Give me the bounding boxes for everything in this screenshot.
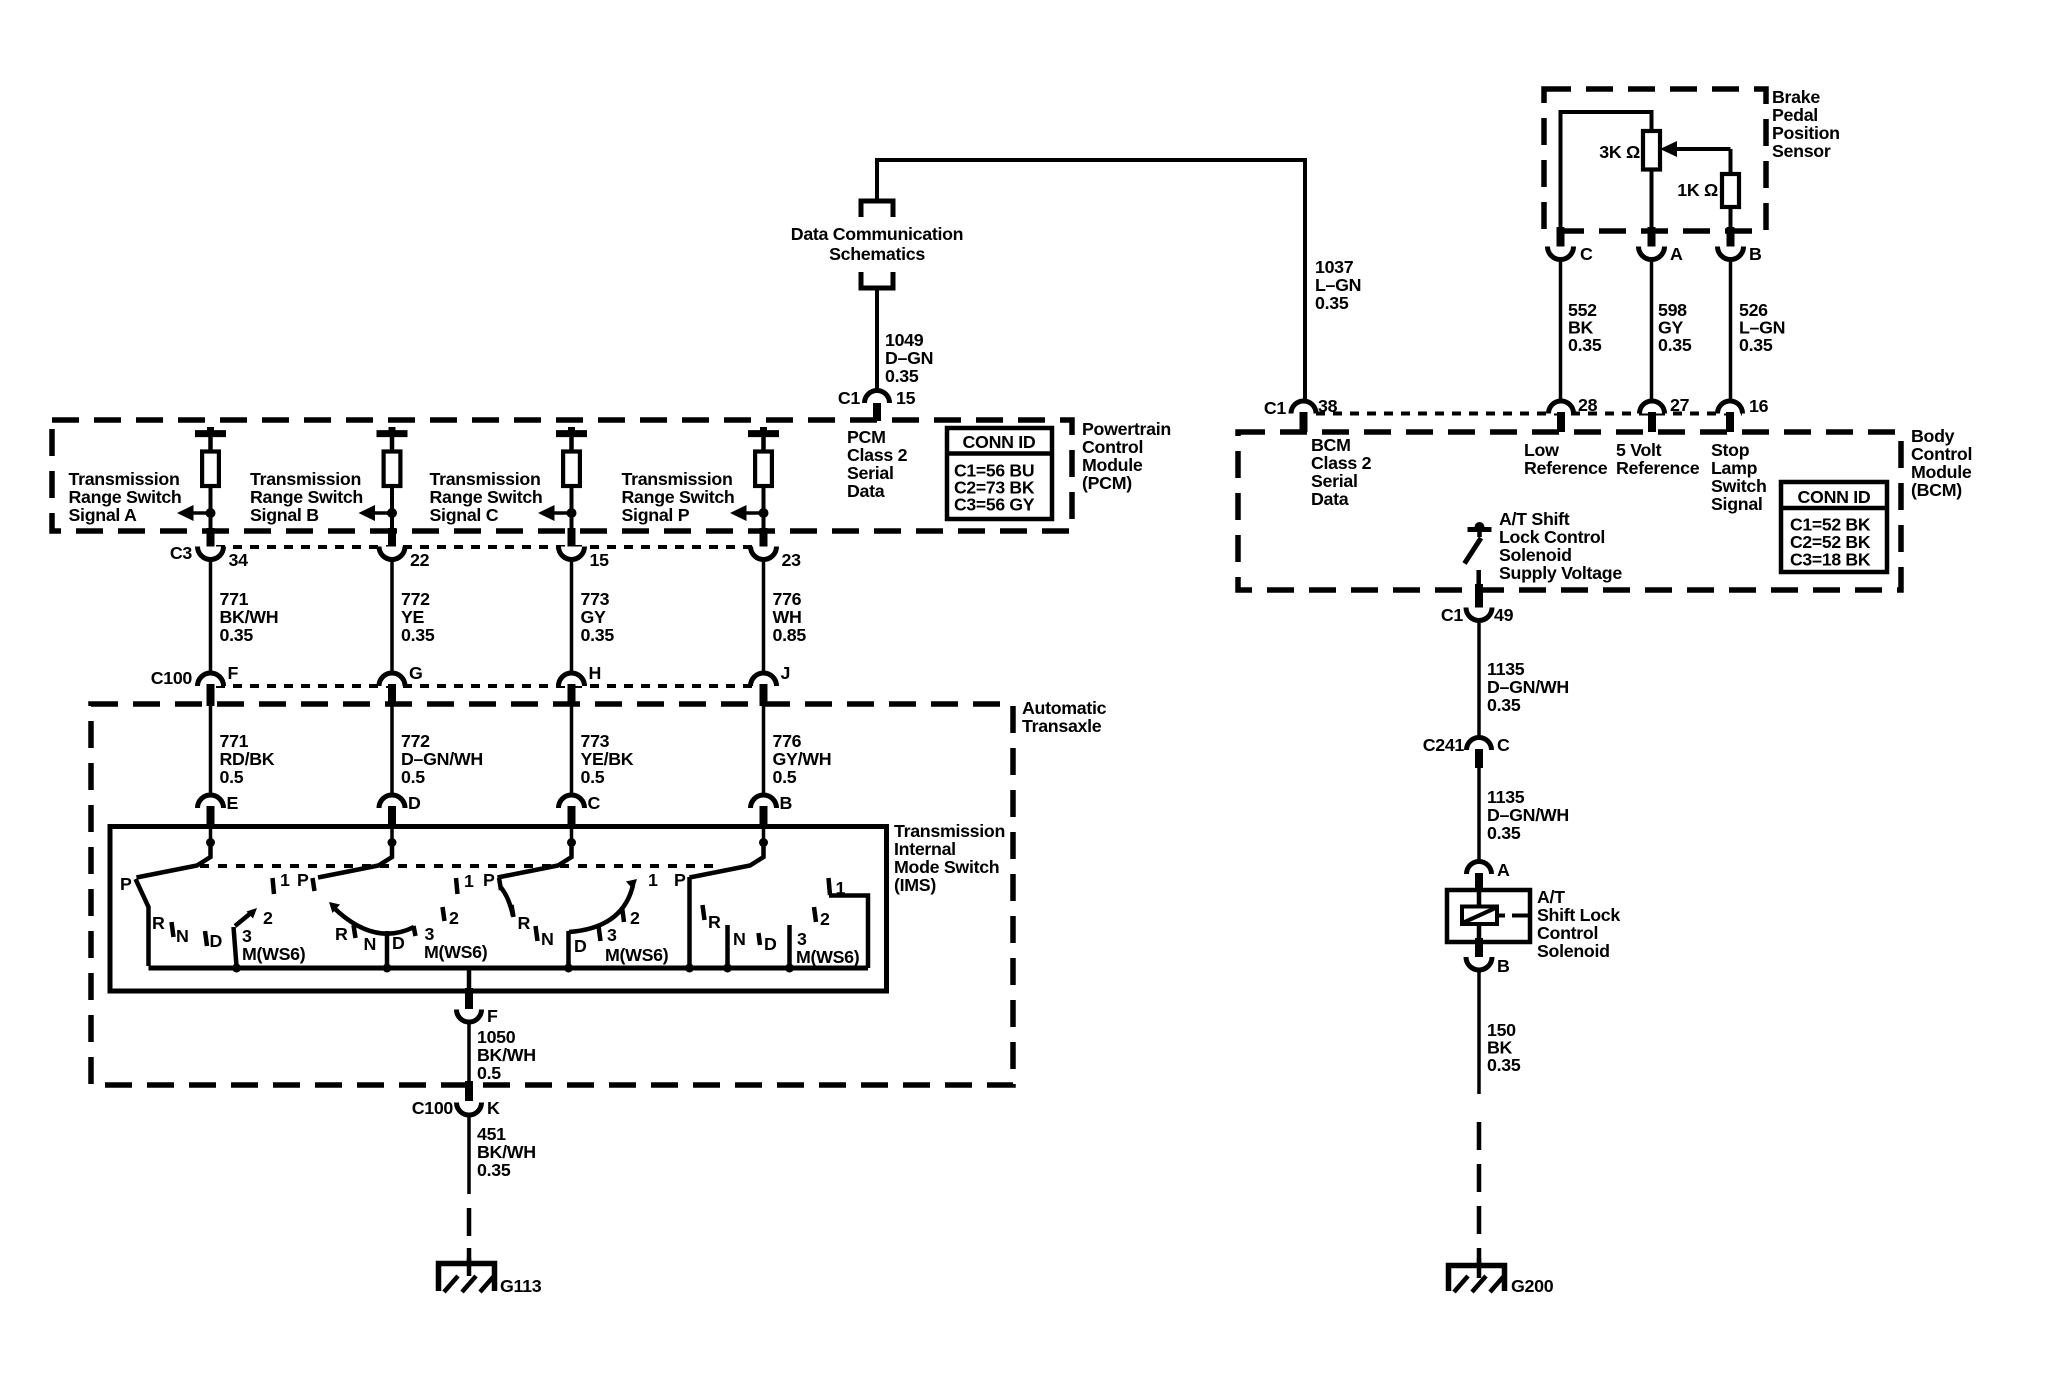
svg-text:D–GN/WH: D–GN/WH: [401, 749, 483, 769]
Brake Pedal Position Sensor dashed box: [1544, 89, 1766, 231]
svg-text:F: F: [228, 663, 239, 683]
svg-text:Range Switch: Range Switch: [430, 487, 543, 507]
svg-text:YE: YE: [401, 607, 425, 627]
wire 552 BK 0.35: [1559, 260, 1563, 403]
svg-text:15: 15: [590, 550, 610, 570]
sensor connector pin B: [1727, 227, 1735, 247]
svg-text:(BCM): (BCM): [1911, 480, 1962, 500]
svg-text:BK/WH: BK/WH: [220, 607, 279, 627]
IMS mechanical coupling dashed line: [200, 864, 714, 868]
wire 776 WH 0.85: [762, 560, 766, 674]
svg-text:776: 776: [773, 589, 802, 609]
svg-text:0.85: 0.85: [773, 625, 807, 645]
svg-text:0.35: 0.35: [1658, 335, 1692, 355]
svg-text:1050: 1050: [477, 1027, 516, 1047]
svg-text:0.5: 0.5: [477, 1063, 501, 1083]
IMS switch 3 wiper: [567, 838, 576, 847]
svg-text:Stop: Stop: [1711, 440, 1750, 460]
svg-text:BCM: BCM: [1311, 435, 1351, 455]
connector C100 pin F: [198, 673, 224, 686]
svg-text:1135: 1135: [1487, 659, 1525, 679]
svg-text:D: D: [764, 934, 777, 954]
svg-text:P: P: [483, 870, 495, 890]
svg-text:1049: 1049: [885, 330, 924, 350]
svg-text:0.35: 0.35: [581, 625, 615, 645]
IMS switch 4 wiper: [759, 838, 768, 847]
wire 150 BK 0.35: [1477, 970, 1481, 1094]
connector C100 pin G: [379, 673, 405, 686]
svg-text:1: 1: [648, 870, 658, 890]
sensor connector pin C: [1557, 227, 1565, 247]
wire 1049 D-GN 0.35: [875, 288, 879, 392]
svg-text:Data Communication: Data Communication: [791, 224, 963, 244]
svg-text:Data: Data: [847, 481, 885, 501]
svg-text:2: 2: [820, 909, 830, 929]
svg-text:C1: C1: [1441, 605, 1464, 625]
svg-text:RD/BK: RD/BK: [220, 749, 275, 769]
svg-text:772: 772: [401, 589, 430, 609]
svg-text:A/T: A/T: [1537, 887, 1565, 907]
svg-text:0.35: 0.35: [220, 625, 254, 645]
IMS switch 4 contact P to bus: [687, 877, 692, 966]
connector pin F: [457, 1010, 482, 1022]
connector C1 pin 28: [1549, 401, 1574, 414]
wire 776 GY/WH 0.5: [762, 706, 766, 796]
svg-text:CONN ID: CONN ID: [963, 432, 1036, 452]
svg-text:Range Switch: Range Switch: [250, 487, 363, 507]
svg-text:R: R: [708, 912, 721, 932]
svg-text:Position: Position: [1772, 123, 1840, 143]
svg-text:Low: Low: [1524, 440, 1559, 460]
svg-text:1135: 1135: [1487, 787, 1525, 807]
svg-text:776: 776: [773, 731, 802, 751]
sensor internal wire: [1561, 112, 1652, 232]
svg-text:27: 27: [1670, 395, 1690, 415]
connector line C1 (BCM): [1316, 412, 1742, 416]
IMS switch 4 contact N to bus: [725, 925, 730, 966]
Body Control Module (BCM) dashed box: [1238, 432, 1901, 590]
svg-text:Shift Lock: Shift Lock: [1537, 905, 1620, 925]
svg-text:C1: C1: [1264, 398, 1287, 418]
svg-text:771: 771: [220, 589, 249, 609]
wire 1050 BK/WH 0.5: [467, 1022, 471, 1084]
svg-text:773: 773: [581, 731, 610, 751]
svg-text:2: 2: [449, 908, 459, 928]
svg-text:Signal: Signal: [1711, 494, 1763, 514]
svg-text:C100: C100: [412, 1098, 454, 1118]
svg-text:Transmission: Transmission: [894, 821, 1005, 841]
svg-text:P: P: [120, 874, 132, 894]
transmission range switch signal B branch: [377, 430, 408, 437]
arrow to signal P label: [736, 511, 764, 515]
connector C1 pin 49: [1475, 584, 1483, 608]
svg-text:P: P: [297, 870, 309, 890]
Powertrain Control Module (PCM) dashed box: [52, 420, 1072, 531]
svg-text:Transmission: Transmission: [69, 469, 180, 489]
svg-text:D: D: [392, 933, 405, 953]
svg-text:C1: C1: [838, 388, 861, 408]
svg-text:YE/BK: YE/BK: [581, 749, 634, 769]
wire 771 RD/BK 0.5: [209, 706, 213, 796]
svg-text:R: R: [152, 913, 165, 933]
connector IMS pin B: [751, 795, 777, 808]
svg-text:1: 1: [464, 871, 474, 891]
svg-text:Body: Body: [1911, 426, 1955, 446]
connector C1 pin 16: [1718, 401, 1743, 414]
connector C1 pin 15 (PCM): [865, 390, 890, 403]
svg-text:R: R: [518, 913, 531, 933]
sensor connector pin A: [1648, 227, 1656, 247]
connector C100 pin K: [457, 1103, 482, 1116]
svg-text:0.35: 0.35: [1739, 335, 1773, 355]
hidden wire to G200: [1477, 1122, 1482, 1264]
svg-text:D: D: [408, 793, 421, 813]
IMS switch 4 contact 1 to bus: [829, 878, 831, 895]
svg-text:0.35: 0.35: [885, 366, 919, 386]
connector solenoid pin A: [1467, 862, 1492, 875]
IMS switch 3 contact D to bus: [566, 931, 571, 966]
wire 772 D–GN/WH 0.5: [390, 706, 394, 796]
connector IMS pin E: [198, 795, 224, 808]
svg-text:B: B: [780, 793, 793, 813]
svg-text:Control: Control: [1537, 923, 1598, 943]
svg-text:Solenoid: Solenoid: [1499, 545, 1572, 565]
connector solenoid pin B: [1475, 938, 1483, 957]
wire 598 GY 0.35: [1650, 260, 1654, 403]
IMS switch 3 travel arc: [569, 885, 633, 932]
svg-text:0.5: 0.5: [401, 767, 425, 787]
svg-text:49: 49: [1494, 605, 1514, 625]
wire 772 YE 0.35: [390, 560, 394, 674]
svg-text:Sensor: Sensor: [1772, 141, 1831, 161]
svg-text:0.35: 0.35: [1487, 1055, 1521, 1075]
svg-text:D: D: [574, 936, 587, 956]
svg-text:Switch: Switch: [1711, 476, 1767, 496]
potentiometer wiper arrow: [1674, 147, 1731, 151]
svg-text:C3=18 BK: C3=18 BK: [1790, 550, 1871, 570]
svg-text:Module: Module: [1911, 462, 1972, 482]
svg-text:Pedal: Pedal: [1772, 105, 1818, 125]
resistor signal A: [202, 452, 219, 487]
svg-text:C3=56 GY: C3=56 GY: [954, 495, 1035, 515]
svg-text:M(WS6): M(WS6): [242, 944, 306, 964]
wire 771 BK/WH 0.35: [209, 560, 213, 674]
svg-text:Class 2: Class 2: [847, 445, 908, 465]
svg-text:3: 3: [425, 924, 435, 944]
svg-text:Data: Data: [1311, 489, 1349, 509]
svg-text:Range Switch: Range Switch: [622, 487, 735, 507]
svg-text:L–GN: L–GN: [1315, 275, 1361, 295]
svg-text:3K Ω: 3K Ω: [1599, 142, 1640, 162]
connector C3 pin 15: [568, 528, 576, 547]
wire IMS output to pin F: [467, 968, 472, 990]
svg-text:Control: Control: [1082, 437, 1143, 457]
svg-text:Signal A: Signal A: [69, 505, 138, 525]
svg-text:Lamp: Lamp: [1711, 458, 1758, 478]
svg-text:Signal B: Signal B: [250, 505, 319, 525]
svg-text:BK/WH: BK/WH: [477, 1142, 536, 1162]
svg-text:38: 38: [1318, 396, 1338, 416]
svg-text:0.5: 0.5: [581, 767, 605, 787]
wire 773 GY 0.35: [570, 560, 574, 674]
svg-text:Serial: Serial: [847, 463, 894, 483]
svg-text:0.35: 0.35: [1315, 293, 1349, 313]
svg-text:0.5: 0.5: [773, 767, 797, 787]
svg-text:Solenoid: Solenoid: [1537, 941, 1610, 961]
svg-text:M(WS6): M(WS6): [605, 945, 669, 965]
svg-text:B: B: [1497, 956, 1510, 976]
resistor signal P: [755, 452, 772, 487]
Automatic Transaxle dashed box: [91, 704, 1013, 1085]
svg-text:C3: C3: [170, 543, 193, 563]
svg-text:3: 3: [797, 929, 807, 949]
svg-text:D–GN: D–GN: [885, 348, 933, 368]
svg-text:23: 23: [782, 550, 802, 570]
IMS switch 2 travel arc: [333, 907, 414, 934]
Transmission Internal Mode Switch (IMS) box: [110, 827, 887, 992]
svg-text:(IMS): (IMS): [894, 875, 936, 895]
IMS switch 1 contact 3 M(WS6): [234, 927, 237, 966]
svg-text:BK/WH: BK/WH: [477, 1045, 536, 1065]
svg-text:Mode Switch: Mode Switch: [894, 857, 999, 877]
connector C3 pin 23: [760, 528, 768, 547]
svg-text:C: C: [1497, 735, 1510, 755]
wire 1135 D-GN/WH 0.35 (lower): [1477, 768, 1481, 862]
svg-text:M(WS6): M(WS6): [424, 942, 488, 962]
svg-text:15: 15: [896, 388, 916, 408]
svg-text:GY: GY: [581, 607, 607, 627]
svg-text:J: J: [781, 663, 791, 683]
svg-text:0.35: 0.35: [1487, 823, 1521, 843]
svg-text:D: D: [210, 931, 223, 951]
svg-text:N: N: [176, 926, 189, 946]
svg-text:G: G: [409, 663, 423, 683]
svg-text:28: 28: [1578, 395, 1598, 415]
IMS switch 1 contact 1: [273, 878, 275, 894]
connector C100 pin H: [559, 673, 585, 686]
svg-text:773: 773: [581, 589, 610, 609]
wire 773 YE/BK 0.5: [570, 706, 574, 796]
ground G113: [467, 1258, 472, 1276]
svg-text:N: N: [733, 929, 746, 949]
svg-text:Supply Voltage: Supply Voltage: [1499, 563, 1622, 583]
resistor signal C: [563, 452, 580, 487]
svg-text:1K Ω: 1K Ω: [1677, 180, 1718, 200]
svg-text:N: N: [541, 929, 554, 949]
svg-text:Transmission: Transmission: [430, 469, 541, 489]
arrow to signal C label: [544, 511, 572, 515]
svg-text:16: 16: [1749, 396, 1769, 416]
IMS switch 2 contact D to bus: [385, 931, 390, 966]
svg-text:Transmission: Transmission: [622, 469, 733, 489]
wire 526 L-GN 0.35: [1729, 260, 1733, 403]
svg-text:1037: 1037: [1315, 257, 1354, 277]
svg-text:2: 2: [630, 908, 640, 928]
transmission range switch signal P branch: [748, 430, 779, 437]
ground G200: [1477, 1258, 1482, 1278]
svg-text:M(WS6): M(WS6): [796, 947, 860, 967]
svg-text:22: 22: [410, 550, 430, 570]
svg-text:0.35: 0.35: [401, 625, 435, 645]
svg-text:772: 772: [401, 731, 430, 751]
svg-text:A/T Shift: A/T Shift: [1499, 509, 1570, 529]
svg-text:G200: G200: [1511, 1276, 1554, 1296]
svg-text:Module: Module: [1082, 455, 1143, 475]
resistor 1K ohm: [1729, 149, 1733, 175]
svg-text:2: 2: [263, 908, 273, 928]
svg-text:Powertrain: Powertrain: [1082, 419, 1171, 439]
svg-text:E: E: [227, 793, 239, 813]
transmission range switch signal A branch: [195, 430, 226, 437]
svg-text:Serial: Serial: [1311, 471, 1358, 491]
svg-text:Signal P: Signal P: [622, 505, 690, 525]
svg-text:0.5: 0.5: [220, 767, 244, 787]
svg-text:Lock Control: Lock Control: [1499, 527, 1605, 547]
svg-text:Transmission: Transmission: [250, 469, 361, 489]
svg-text:F: F: [487, 1006, 498, 1026]
svg-text:D–GN/WH: D–GN/WH: [1487, 805, 1569, 825]
svg-text:Internal: Internal: [894, 839, 956, 859]
svg-text:451: 451: [477, 1124, 506, 1144]
svg-text:H: H: [589, 663, 602, 683]
resistor signal B: [384, 452, 401, 487]
IMS switch 4 contact 3 M(WS6) to bus: [787, 925, 792, 966]
svg-text:WH: WH: [773, 607, 802, 627]
svg-text:C: C: [1580, 244, 1593, 264]
A/T shift lock control solenoid: [1447, 890, 1530, 942]
IMS switch 2 wiper: [388, 838, 397, 847]
svg-text:N: N: [364, 934, 377, 954]
svg-text:3: 3: [607, 925, 617, 945]
off-page connector Data Communication Schematics: [861, 201, 893, 217]
wire class2 serial data top run: [877, 158, 1305, 162]
BCM CONN ID table: [1781, 482, 1887, 572]
svg-text:0.35: 0.35: [1487, 695, 1521, 715]
svg-text:Control: Control: [1911, 444, 1972, 464]
IMS switch 1 contact 2: [235, 913, 252, 927]
svg-text:771: 771: [220, 731, 249, 751]
PCM CONN ID table: [947, 428, 1052, 519]
svg-text:P: P: [674, 870, 686, 890]
connector C1 pin 38: [1291, 401, 1316, 414]
resistor 3K ohm: [1643, 131, 1660, 170]
arrow to signal B label: [364, 511, 392, 515]
connector C241 pin C: [1467, 738, 1492, 751]
svg-text:A: A: [1670, 244, 1683, 264]
svg-text:Schematics: Schematics: [829, 244, 925, 264]
svg-text:Range Switch: Range Switch: [69, 487, 182, 507]
svg-text:C: C: [588, 793, 601, 813]
connector C1 pin 27: [1640, 401, 1665, 414]
svg-text:A: A: [1497, 860, 1510, 880]
switch A/T shift lock control solenoid supply voltage: [1468, 527, 1492, 532]
IMS common bus wire: [149, 966, 869, 971]
hidden wire to G113: [467, 1208, 472, 1264]
connector C3 pin 34: [207, 528, 215, 547]
svg-text:GY/WH: GY/WH: [773, 749, 832, 769]
svg-text:D–GN/WH: D–GN/WH: [1487, 677, 1569, 697]
connector C3 pin 22: [388, 528, 396, 547]
svg-text:R: R: [335, 924, 348, 944]
connector C100 pin J: [751, 673, 777, 686]
svg-text:B: B: [1749, 244, 1762, 264]
svg-text:34: 34: [229, 550, 249, 570]
svg-text:PCM: PCM: [847, 427, 886, 447]
svg-text:3: 3: [242, 926, 252, 946]
svg-text:K: K: [487, 1098, 500, 1118]
arrow to signal A label: [183, 511, 211, 515]
IMS switch 1 wiper: [206, 838, 215, 847]
svg-text:C241: C241: [1423, 735, 1465, 755]
svg-text:Transaxle: Transaxle: [1022, 716, 1102, 736]
svg-text:G113: G113: [500, 1276, 542, 1296]
svg-text:C100: C100: [151, 668, 193, 688]
svg-text:5 Volt: 5 Volt: [1616, 440, 1662, 460]
connector IMS pin C: [559, 795, 585, 808]
wire 1135 D-GN/WH 0.35 (upper): [1477, 621, 1481, 739]
svg-text:Reference: Reference: [1616, 458, 1700, 478]
svg-text:0.35: 0.35: [477, 1160, 511, 1180]
svg-text:Brake: Brake: [1772, 87, 1820, 107]
svg-text:Reference: Reference: [1524, 458, 1608, 478]
svg-text:1: 1: [280, 870, 290, 890]
connector IMS pin D: [379, 795, 405, 808]
transmission range switch signal C branch: [556, 430, 587, 437]
svg-text:Class 2: Class 2: [1311, 453, 1372, 473]
svg-text:0.35: 0.35: [1568, 335, 1602, 355]
svg-text:CONN ID: CONN ID: [1798, 487, 1871, 507]
svg-text:Automatic: Automatic: [1022, 698, 1107, 718]
svg-text:Signal C: Signal C: [430, 505, 499, 525]
svg-text:(PCM): (PCM): [1082, 473, 1132, 493]
wire 451 BK/WH 0.35: [467, 1115, 471, 1194]
